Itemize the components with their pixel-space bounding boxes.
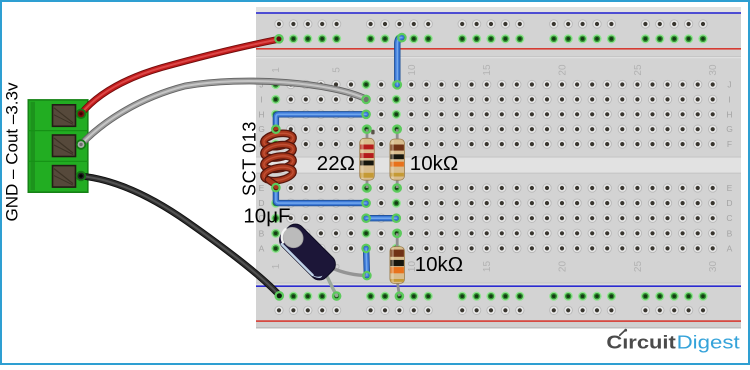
top rail row1 holes [275,20,707,28]
svg-text:30: 30 [708,64,719,76]
wire: E1-D1-D7 [276,188,366,204]
terminal entry pin1 (red wire) [76,109,86,119]
connection rings [272,34,405,300]
black wire: terminal pin3 to bottom rail [81,176,279,295]
svg-text:5: 5 [332,67,343,73]
svg-text:H: H [726,109,732,119]
svg-text:SCT 013: SCT 013 [239,121,259,196]
svg-text:E: E [259,183,265,193]
breadboard body [256,7,741,329]
CircuitDigest logo [606,333,739,353]
svg-text:I: I [260,94,262,104]
svg-text:10: 10 [407,64,418,76]
svg-text:GND – Cout –3.3v: GND – Cout –3.3v [3,82,22,221]
inductor coil L1 (SCT 013 sensor) [263,129,294,187]
svg-text:15: 15 [482,64,493,76]
top rail row2 holes (connected strip, green) [274,34,707,43]
main grid holes [287,80,717,252]
row letters right [726,80,733,254]
svg-text:10kΩ: 10kΩ [410,152,458,175]
svg-text:E: E [727,183,733,193]
bottom rail row2 holes [275,306,707,314]
seam line above bottom rail [256,283,741,285]
row letters left [258,80,265,254]
capacitor C1 10uF leads [324,266,364,296]
bottom rail row1 holes (connected strip, green) [274,292,707,301]
wire: A7 down to capacitor junction [363,248,370,275]
svg-text:Digest: Digest [677,333,740,353]
top rail blue line [256,12,741,14]
svg-text:20: 20 [558,64,569,76]
terminal entry pin2 (gray wire) [76,139,86,149]
wire: top power rail to J9 [397,37,402,84]
svg-text:22Ω: 22Ω [317,152,355,175]
connected strip holes columns 1,7,9 (green) [271,80,401,253]
resistor R2 10k (G9-E9) [390,129,405,188]
svg-text:B: B [259,228,265,238]
svg-text:C: C [726,213,732,223]
logo i-tick [620,329,627,335]
svg-text:10kΩ: 10kΩ [415,253,463,276]
pin mark near R1 [371,130,374,135]
bottom rail blue line [256,285,741,287]
red wire: terminal pin1 to top rail [81,40,278,114]
center channel groove [256,157,741,174]
gray wire: terminal pin2 to I7 [81,81,366,144]
column numbers top [271,64,719,76]
column numbers bottom [271,261,719,273]
screw terminal block (3-pin) [28,100,88,192]
svg-text:30: 30 [708,261,719,273]
svg-text:G: G [726,124,733,134]
svg-text:1: 1 [271,67,282,73]
capacitor C1 10uF body [275,220,339,284]
svg-text:A: A [259,243,265,253]
svg-text:10μF: 10μF [243,204,290,227]
svg-text:F: F [727,139,732,149]
seam line below top rail [256,56,741,58]
svg-text:D: D [726,198,732,208]
svg-text:Cırcuit: Cırcuit [606,333,675,353]
svg-text:J: J [727,80,731,90]
terminal entry pin3 (black wire) [76,171,86,181]
svg-text:25: 25 [633,64,644,76]
svg-text:H: H [258,109,264,119]
svg-text:1: 1 [271,263,282,269]
wire: G1-H1-H7 [276,114,366,129]
svg-text:A: A [727,243,733,253]
resistor R3 10k (B9-bottom rail) [390,233,405,296]
svg-text:20: 20 [558,261,569,273]
svg-text:B: B [727,228,733,238]
svg-text:25: 25 [633,261,644,273]
resistor R1 22R (G7-E7) [360,129,375,188]
svg-text:15: 15 [482,261,493,273]
top rail red line [256,48,741,50]
wire: C7-C9 [366,215,396,221]
svg-text:I: I [728,94,730,104]
bottom rail red line [256,320,741,322]
